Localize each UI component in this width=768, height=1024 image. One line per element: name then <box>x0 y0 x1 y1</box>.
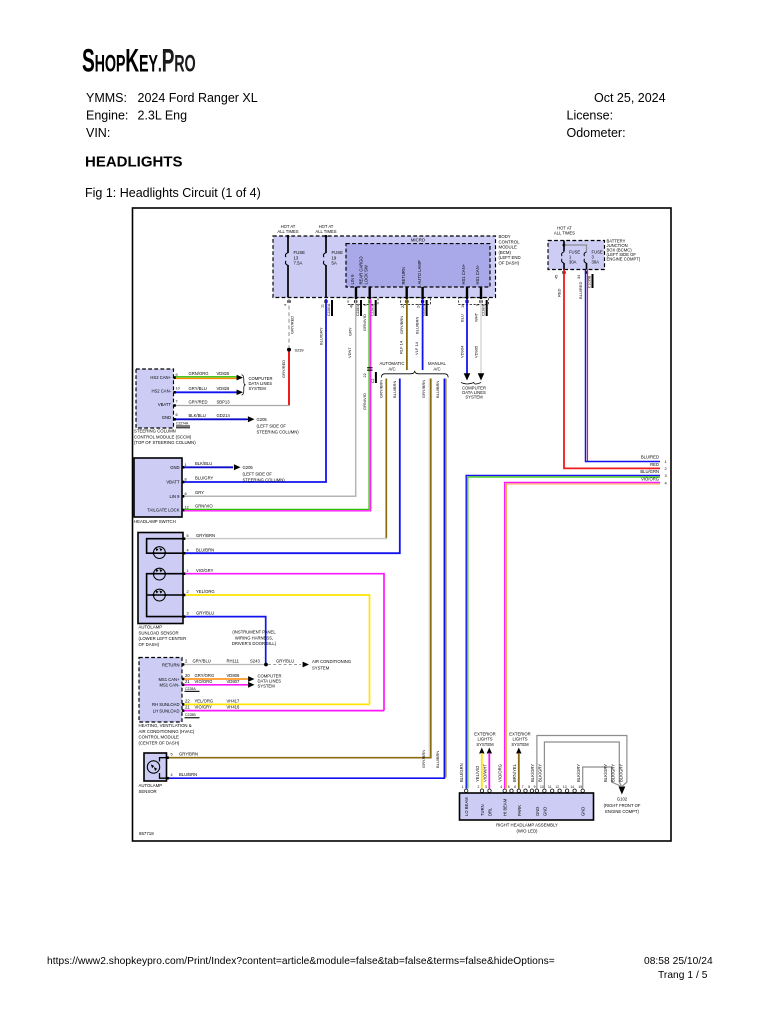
svg-text:Fig 1: Headlights Circuit (1 o: Fig 1: Headlights Circuit (1 of 4) <box>85 186 261 200</box>
node COMPUTER DATA LINES SYSTEM (HVAC) <box>258 674 282 689</box>
wire BRN/YEL to headlamp pin 5 <box>518 753 520 789</box>
svg-text:HS2 CAN+: HS2 CAN+ <box>150 375 171 380</box>
svg-text:VIO/ORG: VIO/ORG <box>498 764 503 782</box>
svg-text:21: 21 <box>185 679 190 684</box>
svg-text:GRN/ORG: GRN/ORG <box>189 371 209 376</box>
svg-text:1: 1 <box>665 459 667 464</box>
wire GRY/BLU sensor pin 3 to S243 <box>183 617 266 664</box>
wire GRY/BRN automatic pair to sunload sensor pin 5 <box>385 379 387 539</box>
svg-text:BLU: BLU <box>459 314 464 322</box>
svg-text:SYSTEM: SYSTEM <box>249 386 267 391</box>
fuse F19 5A <box>323 237 326 298</box>
wire VIO/WHT to headlamp pin 3 <box>488 753 490 789</box>
svg-text:SYSTEM: SYSTEM <box>312 665 330 670</box>
wire GRY/BLU RH111 (RETURN) <box>182 664 265 666</box>
wire GRY BCM pin 48 to headlamp switch LIN 9 <box>182 299 356 496</box>
svg-text:VD904: VD904 <box>459 345 464 358</box>
svg-text:22: 22 <box>401 304 405 308</box>
svg-text:SYSTEM: SYSTEM <box>465 395 483 400</box>
svg-text:BLU/BRN: BLU/BRN <box>414 317 419 334</box>
svg-text:5: 5 <box>187 534 189 538</box>
svg-text:SYSTEM: SYSTEM <box>258 684 276 689</box>
wire GRY/BLU VD826 <box>174 391 238 393</box>
svg-text:DRL: DRL <box>488 807 493 816</box>
sunload sensor wire labels <box>196 533 215 615</box>
svg-text:GRY: GRY <box>195 490 204 495</box>
label sunload sensor name <box>139 625 187 647</box>
svg-text:HS2 CAN-: HS2 CAN- <box>151 389 171 394</box>
svg-text:RLF 14: RLF 14 <box>399 340 404 354</box>
svg-text:2: 2 <box>665 466 667 471</box>
svg-text:GRY/RED: GRY/RED <box>281 360 286 378</box>
brace COMPUTER DATA LINES (SCCM) <box>242 375 246 395</box>
svg-text:VDN7: VDN7 <box>347 347 352 358</box>
svg-text:VIO/GRY: VIO/GRY <box>195 705 213 710</box>
svg-text:https://www2.shopkeypro.com/Pr: https://www2.shopkeypro.com/Print/Index?… <box>47 956 555 967</box>
sunload sensor pin numbers <box>187 534 189 615</box>
headlamp pin circles <box>465 789 585 792</box>
svg-text:ENGINE COMPT): ENGINE COMPT) <box>605 809 639 814</box>
svg-text:1: 1 <box>185 463 187 467</box>
svg-text:G102: G102 <box>617 797 628 802</box>
svg-text:BLK/BLU: BLK/BLU <box>195 461 212 466</box>
svg-text:VD807: VD807 <box>227 679 240 684</box>
wire YEL/ORG VH417 (RH SUNLOAD) <box>182 703 370 705</box>
svg-text:10: 10 <box>461 304 465 308</box>
label MANUAL A/C <box>428 361 447 372</box>
BCM connector dashed fragments <box>348 298 489 305</box>
svg-text:SENSOR: SENSOR <box>139 789 157 794</box>
svg-text:(CENTER OF DASH): (CENTER OF DASH) <box>139 740 180 745</box>
label BLU/GRY (switch VBATT) <box>195 476 214 481</box>
wire GRY/RED red segment <box>288 352 290 406</box>
label GRY (switch LIN) <box>195 490 204 495</box>
wire RED from fuse 1 to edge pin 2 <box>564 270 660 469</box>
svg-text:9: 9 <box>476 304 480 306</box>
svg-text:STEERING COLUMN: STEERING COLUMN <box>134 429 176 434</box>
SCCM pin numbers <box>176 373 180 417</box>
svg-text:C2280A: C2280A <box>327 303 331 316</box>
module U-BCM MICRO inner box <box>346 244 490 287</box>
svg-text:STEERING COLUMN): STEERING COLUMN) <box>257 430 300 435</box>
svg-text:7: 7 <box>176 400 178 404</box>
svg-text:GD214: GD214 <box>217 413 231 418</box>
svg-text:HEATING, VENTILATION &: HEATING, VENTILATION & <box>139 723 192 728</box>
label SCCM name <box>134 429 196 446</box>
wire VIO/GRY VH416 (LH SUNLOAD) <box>182 710 384 712</box>
svg-text:10: 10 <box>176 386 180 390</box>
label BCM name <box>499 234 521 266</box>
svg-text:3: 3 <box>485 785 487 789</box>
wire BJB bus jumper <box>564 245 587 252</box>
svg-text:BLK/GRY: BLK/GRY <box>611 764 616 782</box>
svg-text:15: 15 <box>578 785 582 789</box>
svg-text:VD826: VD826 <box>217 386 230 391</box>
wire VIO/ORG VD807 (MS1 CAN-) <box>182 684 248 686</box>
svg-text:HI BEAM: HI BEAM <box>503 798 508 816</box>
label autolamp sensor name <box>139 783 163 794</box>
svg-text:RETURN: RETURN <box>401 267 406 284</box>
svg-text:C2280E: C2280E <box>482 303 486 316</box>
BCM pin numbers <box>284 304 480 308</box>
svg-text:BLU/RED: BLU/RED <box>641 455 659 460</box>
svg-text:AIR CONDITIONING: AIR CONDITIONING <box>312 659 351 664</box>
svg-text:License:: License: <box>567 109 614 123</box>
svg-text:MODULE: MODULE <box>499 245 518 250</box>
svg-text:BLU/GRY: BLU/GRY <box>319 327 324 345</box>
svg-text:GRN/VIO: GRN/VIO <box>195 503 213 508</box>
svg-text:4: 4 <box>171 773 173 777</box>
svg-text:BODY: BODY <box>499 234 511 239</box>
svg-text:HS1 CAN-: HS1 CAN- <box>475 264 480 284</box>
wire BLU/RED from fuse 3 to edge pin 1 <box>587 270 589 462</box>
wire VIO/GRY sensor pin 1 to HVAC LH SUNLOAD <box>183 574 384 711</box>
svg-text:22: 22 <box>363 373 367 377</box>
svg-text:3: 3 <box>187 611 189 615</box>
sunload sensor photocell symbols <box>154 547 166 601</box>
svg-text:6: 6 <box>185 492 187 496</box>
svg-text:STEERING COLUMN): STEERING COLUMN) <box>243 478 286 483</box>
svg-text:S243: S243 <box>250 659 260 664</box>
svg-text:CONTROL MODULE (SCCM): CONTROL MODULE (SCCM) <box>134 434 192 439</box>
connector C2280A bar (pin 48) <box>356 300 362 316</box>
svg-text:LIN 9: LIN 9 <box>350 274 355 285</box>
connector C228A label <box>185 687 200 692</box>
svg-text:BLK/GRY: BLK/GRY <box>618 764 623 782</box>
wire BLU/GRY BCM pin 11 to headlamp switch VBATT <box>182 299 326 482</box>
svg-text:GRY/RED: GRY/RED <box>290 316 295 334</box>
svg-text:19: 19 <box>332 255 337 260</box>
svg-text:(LOWER LEFT CENTER: (LOWER LEFT CENTER <box>139 636 187 641</box>
svg-text:VLF 14: VLF 14 <box>414 341 419 355</box>
svg-text:GRY/BLU: GRY/BLU <box>276 659 294 664</box>
svg-text:Odometer:: Odometer: <box>567 126 626 140</box>
svg-text:8: 8 <box>528 785 530 789</box>
svg-text:BRN/YEL: BRN/YEL <box>512 763 517 782</box>
svg-text:LIN 9: LIN 9 <box>169 494 180 499</box>
svg-text:HEADLIGHTS: HEADLIGHTS <box>85 154 183 171</box>
svg-text:VD905: VD905 <box>473 345 478 358</box>
module HVAC box <box>139 658 182 723</box>
wire BLU/GRN edge pin 3 to headlamp pin 1 <box>466 475 660 788</box>
svg-text:G205: G205 <box>257 417 268 422</box>
svg-text:5: 5 <box>508 785 510 789</box>
svg-text:4: 4 <box>284 304 288 306</box>
wire YEL/ORG sensor pin 2 to HVAC RH SUNLOAD <box>183 595 370 704</box>
svg-text:VD806: VD806 <box>227 673 240 678</box>
headlamp internal pin labels <box>464 797 586 816</box>
svg-text:ALL TIMES: ALL TIMES <box>315 229 336 234</box>
svg-text:BLK/BLU: BLK/BLU <box>189 413 206 418</box>
svg-text:A/C: A/C <box>433 367 440 372</box>
label INSTRUMENT PANEL harness <box>232 630 277 647</box>
node BJB feed <box>563 244 566 247</box>
module BJB box <box>548 241 605 270</box>
svg-text:GRY/BRN: GRY/BRN <box>196 533 215 538</box>
wire GRY/BRN RLF14 from BCM pin 22 <box>406 299 408 370</box>
svg-text:21: 21 <box>185 705 190 710</box>
connector C228B label <box>185 713 200 718</box>
svg-text:BLU/GRY: BLU/GRY <box>195 476 214 481</box>
svg-text:OF DASH): OF DASH) <box>499 261 520 266</box>
svg-text:BLU/BRN: BLU/BRN <box>179 772 197 777</box>
svg-text:08:58 25/10/24: 08:58 25/10/24 <box>644 956 713 967</box>
connector C1035B bar <box>588 274 594 288</box>
SCCM pin labels <box>150 375 171 420</box>
node COMPUTER DATA LINES SYSTEM (BCM) <box>461 383 481 385</box>
ground G205 (SCCM) <box>248 416 255 422</box>
svg-text:(INSTRUMENT PANEL: (INSTRUMENT PANEL <box>232 630 276 635</box>
svg-text:DRIVER'S DOOR SILL): DRIVER'S DOOR SILL) <box>232 641 277 646</box>
wire color labels above headlamp <box>459 763 581 782</box>
svg-text:13: 13 <box>563 785 567 789</box>
svg-text:BLU/BRN: BLU/BRN <box>435 381 440 398</box>
svg-text:Engine:: Engine: <box>86 109 128 123</box>
svg-text:VIN:: VIN: <box>86 126 110 140</box>
svg-text:(LEFT SIDE OF: (LEFT SIDE OF <box>243 471 273 476</box>
wire BLK/GRY ground loop pin 15 <box>583 767 621 789</box>
svg-text:MICRO: MICRO <box>411 238 426 243</box>
wire VIO/ORG edge pin 4 to headlamp pin 4 <box>505 483 660 789</box>
labels BLK/GRY on ground loops <box>603 764 624 782</box>
svg-text:YMMS:: YMMS: <box>86 91 127 105</box>
svg-text:GRY/BLU: GRY/BLU <box>196 610 214 615</box>
svg-text:G205: G205 <box>243 465 254 470</box>
node EXTERIOR LIGHTS SYSTEM (turn/DRL) <box>474 732 495 747</box>
svg-text:SYSTEM: SYSTEM <box>476 742 494 747</box>
label GRY/RED SBP13 <box>189 400 231 405</box>
svg-text:10: 10 <box>540 785 544 789</box>
splice S239 <box>287 348 291 352</box>
svg-text:RH SUNLOAD: RH SUNLOAD <box>152 702 179 707</box>
wire GRN/VIO BCM pin 6 to headlamp switch TAILGATE LOCK <box>182 299 369 509</box>
svg-text:C2: C2 <box>371 379 375 383</box>
wire WHT from BCM HS1 CAN- pin 9 <box>480 299 482 374</box>
module SCCM box <box>136 369 174 428</box>
svg-text:(LEFT END: (LEFT END <box>499 255 521 260</box>
wire GRY/RED horizontal to SCCM VBATT <box>174 405 290 407</box>
svg-text:BLU/BRN: BLU/BRN <box>196 548 214 553</box>
svg-text:C228A: C228A <box>185 687 196 691</box>
power label HOT AT ALL TIMES (BJB) <box>554 226 575 236</box>
svg-text:857718: 857718 <box>139 831 154 836</box>
svg-text:TURN: TURN <box>480 804 485 816</box>
svg-text:VBATT: VBATT <box>158 402 172 407</box>
headlamp switch pin labels <box>147 465 180 513</box>
connector C2274 label under SCCM GND <box>176 422 190 429</box>
svg-text:AUTOLAMP: AUTOLAMP <box>139 625 163 630</box>
wire GRN/ORG VD825 <box>174 376 238 378</box>
svg-text:RED: RED <box>556 288 561 297</box>
svg-text:1: 1 <box>462 785 464 789</box>
svg-text:SHOPKEY.PRO: SHOPKEY.PRO <box>82 42 196 78</box>
svg-text:CONTROL: CONTROL <box>499 239 521 244</box>
svg-text:(TOP OF STEERING COLUMN): (TOP OF STEERING COLUMN) <box>134 440 196 445</box>
wire BLU/BRN automatic pair to sunload sensor pin 4 <box>183 379 400 554</box>
svg-text:BLU/RED: BLU/RED <box>578 282 583 299</box>
power label HOT AT ALL TIMES (fuse 19) <box>315 224 336 234</box>
svg-text:VD825: VD825 <box>217 371 230 376</box>
connector C2280B bar (pin 6) <box>371 300 377 316</box>
svg-text:ALL TIMES: ALL TIMES <box>277 229 298 234</box>
svg-text:7: 7 <box>522 785 524 789</box>
module U-BCM outer box <box>273 236 496 298</box>
svg-text:TAILGATE LOCK: TAILGATE LOCK <box>147 508 179 513</box>
svg-text:2024 Ford Ranger XL: 2024 Ford Ranger XL <box>138 91 258 105</box>
autolamp sensor photocell symbol <box>147 758 166 779</box>
svg-text:FUSE: FUSE <box>294 250 306 255</box>
ground G205 (switch) <box>234 464 241 470</box>
connector C2280E bar (pin 9) <box>482 300 488 316</box>
svg-text:AUTOMATIC: AUTOMATIC <box>380 361 405 366</box>
svg-text:34: 34 <box>577 275 581 279</box>
svg-text:4: 4 <box>500 785 502 789</box>
headlamp switch pin numbers <box>185 463 189 510</box>
svg-text:GRY/BLU: GRY/BLU <box>193 659 211 664</box>
svg-text:GND: GND <box>162 415 171 420</box>
svg-text:BLK/GRY: BLK/GRY <box>538 764 543 782</box>
svg-text:VH416: VH416 <box>227 705 240 710</box>
svg-text:2: 2 <box>187 590 189 594</box>
svg-text:SYSTEM: SYSTEM <box>511 742 529 747</box>
svg-text:6: 6 <box>514 785 516 789</box>
ground G102 <box>619 787 626 795</box>
inline connector on GRN/VIO wire <box>367 367 372 368</box>
svg-text:LH SUNLOAD: LH SUNLOAD <box>153 708 180 713</box>
svg-text:14: 14 <box>570 785 574 789</box>
svg-text:ALL TIMES: ALL TIMES <box>554 231 575 236</box>
svg-text:20: 20 <box>185 673 190 678</box>
wire BLU/BRN VLF14 from BCM pin 24 <box>422 299 424 370</box>
splice S243 <box>264 663 268 667</box>
svg-text:GRN/VIO: GRN/VIO <box>362 314 367 331</box>
svg-text:YEL/ORG: YEL/ORG <box>196 589 215 594</box>
svg-text:2: 2 <box>478 785 480 789</box>
svg-text:S239: S239 <box>295 348 304 353</box>
svg-text:45: 45 <box>555 275 559 279</box>
fuse F3 30A <box>584 252 586 270</box>
svg-text:30A: 30A <box>569 260 577 265</box>
svg-text:12: 12 <box>185 505 189 509</box>
power label HOT AT ALL TIMES (fuse 13) <box>277 224 298 234</box>
svg-text:6: 6 <box>364 304 368 306</box>
wire GRY/BLU dashed to A/C system <box>268 664 301 666</box>
svg-text:13: 13 <box>294 255 299 260</box>
svg-text:30A: 30A <box>592 260 600 265</box>
wire BLU from BCM HS1 CAN+ pin 10 <box>466 299 468 374</box>
svg-text:48: 48 <box>350 304 354 308</box>
svg-text:3: 3 <box>665 473 667 478</box>
svg-text:9: 9 <box>534 785 536 789</box>
wire BLK/GRY ground loop pin 9 <box>537 736 627 789</box>
svg-text:SUNLOAD SENSOR: SUNLOAD SENSOR <box>139 630 179 635</box>
svg-text:BLK/GRY: BLK/GRY <box>530 764 535 782</box>
wire GRY/ORG VD806 (MS1 CAN+) <box>182 678 248 680</box>
svg-text:1: 1 <box>187 569 189 573</box>
svg-text:5: 5 <box>171 753 173 757</box>
svg-text:GRY/RED: GRY/RED <box>189 400 208 405</box>
svg-text:AIR CONDITIONING (HVAC): AIR CONDITIONING (HVAC) <box>139 729 195 734</box>
wire BLK/BLU from switch GND <box>182 466 233 468</box>
svg-text:CONTROL MODULE: CONTROL MODULE <box>139 735 180 740</box>
svg-text:12: 12 <box>555 785 559 789</box>
wire BLK/BLU GD214 to ground G205 <box>174 418 248 420</box>
svg-text:VIO/WHT: VIO/WHT <box>482 764 487 782</box>
node AIR CONDITIONING SYSTEM <box>303 662 309 668</box>
module sunload sensor box <box>138 533 183 624</box>
node EXTERIOR LIGHTS SYSTEM (park) <box>509 732 530 747</box>
svg-text:8: 8 <box>185 478 187 482</box>
module autolamp sensor box <box>144 753 167 781</box>
svg-text:YEL/VIO: YEL/VIO <box>475 765 480 782</box>
svg-text:GND: GND <box>170 465 179 470</box>
svg-text:11: 11 <box>321 304 325 308</box>
edge pin labels 1-4 <box>640 455 659 482</box>
svg-text:(W/O LED): (W/O LED) <box>516 828 538 833</box>
wire BLK/GRY ground loop pin 10 <box>544 742 621 789</box>
svg-text:HS1 CAN+: HS1 CAN+ <box>461 263 466 284</box>
svg-text:WHT: WHT <box>473 312 478 322</box>
svg-text:GND: GND <box>542 807 547 816</box>
svg-text:RH111: RH111 <box>227 659 240 664</box>
svg-text:OF DASH): OF DASH) <box>139 642 160 647</box>
svg-text:A/C: A/C <box>388 367 395 372</box>
svg-text:(RIGHT FRONT OF: (RIGHT FRONT OF <box>604 803 641 808</box>
svg-text:VIO/ORG: VIO/ORG <box>195 679 213 684</box>
svg-text:Trang 1 / 5: Trang 1 / 5 <box>658 970 708 981</box>
svg-text:FUSE: FUSE <box>332 250 344 255</box>
svg-text:4: 4 <box>187 549 189 553</box>
svg-text:GRY/BRN: GRY/BRN <box>421 750 426 768</box>
svg-text:VBATT: VBATT <box>166 480 180 485</box>
svg-text:MANUAL: MANUAL <box>428 361 447 366</box>
svg-text:SBP13: SBP13 <box>217 400 231 405</box>
svg-text:BLU/BRN: BLU/BRN <box>392 381 397 398</box>
svg-text:BLU/BRN: BLU/BRN <box>435 751 440 768</box>
svg-text:AUTO LAMP: AUTO LAMP <box>417 260 422 284</box>
svg-text:GRY/ORG: GRY/ORG <box>195 673 215 678</box>
module headlamp switch box <box>134 458 182 517</box>
wire GRY/RED dashed from BCM pin 4 <box>288 299 290 347</box>
svg-text:MS1 CAN+: MS1 CAN+ <box>158 677 180 682</box>
svg-text:ENGINE COMPT): ENGINE COMPT) <box>607 256 641 261</box>
svg-text:GRY/BRN: GRY/BRN <box>421 380 426 398</box>
svg-text:GRY: GRY <box>348 327 353 336</box>
svg-text:5A: 5A <box>332 261 337 266</box>
svg-text:HEADLAMP SWITCH: HEADLAMP SWITCH <box>134 519 176 524</box>
headlamp pin numbers <box>462 785 583 789</box>
svg-text:GRY/BLU: GRY/BLU <box>189 386 207 391</box>
HVAC pin labels <box>152 662 180 713</box>
svg-text:GRY/BRN: GRY/BRN <box>179 752 198 757</box>
svg-text:LO BEAM: LO BEAM <box>464 797 469 816</box>
fuse F13 7.5A <box>285 237 288 298</box>
diagram frame <box>133 208 672 841</box>
svg-text:2.3L Eng: 2.3L Eng <box>138 109 188 123</box>
label right headlamp assembly <box>496 823 558 834</box>
svg-text:Oct 25, 2024: Oct 25, 2024 <box>594 91 666 105</box>
svg-text:AUTOLAMP: AUTOLAMP <box>139 783 163 788</box>
svg-text:PARK: PARK <box>517 805 522 816</box>
svg-text:GRN/VIO: GRN/VIO <box>362 393 367 410</box>
svg-text:BLU/GRN: BLU/GRN <box>459 763 464 782</box>
label BJB name <box>607 238 641 261</box>
svg-text:C2274A: C2274A <box>176 422 189 426</box>
svg-text:22: 22 <box>185 698 190 703</box>
svg-text:24: 24 <box>417 304 421 308</box>
svg-text:GND: GND <box>535 807 540 816</box>
splice brace to A/C option pairs <box>381 371 448 378</box>
